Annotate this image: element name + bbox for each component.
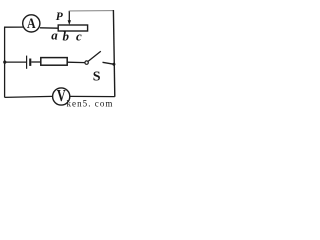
wire switch to right — [103, 62, 115, 64]
wire battery to resistor — [31, 61, 41, 63]
svg-text:S: S — [93, 70, 101, 85]
battery cell short thick plate — [29, 59, 31, 66]
rheostat slider arrow — [68, 11, 70, 22]
node junction right-middle — [112, 63, 115, 66]
switch S hinge — [85, 61, 88, 64]
wire ammeter to rheostat terminal a — [40, 27, 58, 29]
voltmeter V1 — [53, 88, 70, 105]
svg-text:a: a — [51, 28, 58, 43]
svg-text:c: c — [76, 28, 82, 43]
wire left to battery — [5, 61, 27, 63]
wire bottom-left — [5, 96, 53, 97]
svg-text:ken5. com: ken5. com — [67, 99, 114, 109]
svg-text:b: b — [63, 28, 70, 43]
wire top-left horizontal — [4, 26, 23, 28]
wire right vertical — [113, 10, 114, 97]
battery cell long plate — [26, 56, 28, 69]
svg-text:V: V — [57, 86, 66, 105]
svg-text:P: P — [56, 11, 64, 23]
wire voltmeter to bottom-right — [70, 95, 115, 97]
resistor R body — [41, 58, 67, 66]
wire left vertical — [4, 27, 6, 97]
wire slider to top-right — [69, 10, 113, 12]
node junction left-middle — [3, 61, 6, 64]
switch S blade — [88, 51, 101, 61]
svg-text:A: A — [27, 16, 36, 32]
ammeter A1 — [23, 15, 40, 32]
wire resistor to switch — [67, 61, 85, 63]
rheostat P body — [58, 25, 87, 31]
